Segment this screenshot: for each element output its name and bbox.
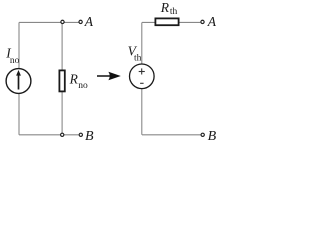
wire: right circuit bottom rail: [142, 134, 201, 136]
terminal A (left circuit): [79, 20, 82, 23]
svg-text:R: R: [69, 72, 79, 87]
wire: right circuit left vertical: [141, 22, 143, 134]
label V_th: [128, 43, 142, 63]
resistor R_no: [59, 70, 64, 91]
terminal B (left circuit): [79, 133, 82, 136]
svg-text:B: B: [208, 129, 217, 143]
wire: left circuit resistor branch vertical: [61, 22, 63, 134]
svg-text:R: R: [160, 0, 170, 15]
junction node: top of resistor branch: [61, 20, 64, 23]
label R_th: [160, 0, 178, 17]
equivalence arrow: [97, 72, 121, 81]
wire: left circuit left vertical: [18, 22, 20, 134]
resistor R_th: [155, 18, 178, 25]
svg-text:A: A: [207, 14, 217, 29]
junction node: bottom of resistor branch: [61, 133, 64, 136]
wire: left circuit top rail to node A: [19, 21, 79, 23]
svg-text:no: no: [10, 56, 20, 66]
svg-text:A: A: [84, 14, 94, 29]
wire: left circuit bottom rail to node B: [19, 134, 79, 136]
label R_no: [69, 72, 88, 92]
svg-text:B: B: [85, 129, 94, 143]
svg-text:no: no: [78, 81, 88, 91]
label I_no: [5, 46, 19, 67]
svg-text:th: th: [170, 7, 178, 17]
wire: right circuit top rail: [142, 21, 200, 23]
terminal B (right circuit): [201, 133, 204, 136]
current source I_no: [6, 69, 31, 94]
svg-text:th: th: [134, 53, 142, 63]
voltage source V_th: [130, 64, 155, 89]
terminal A (right circuit): [201, 20, 204, 23]
